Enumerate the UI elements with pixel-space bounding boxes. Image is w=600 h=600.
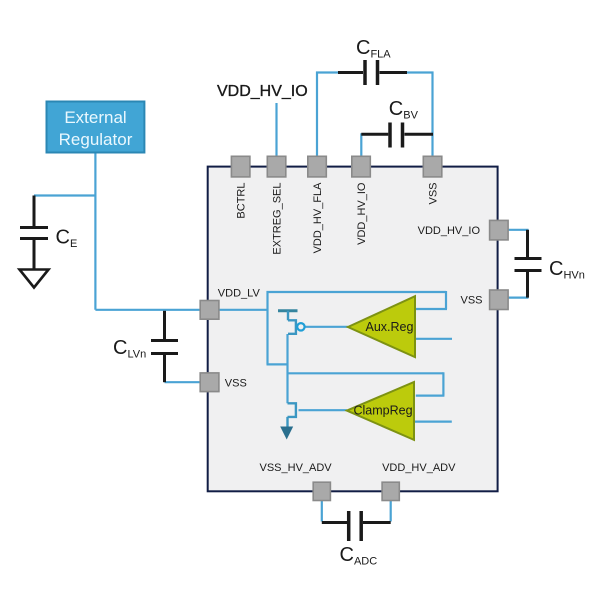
wire: CLVn bottom to left VSS pin	[165, 381, 201, 383]
wire: right VDD_HV_IO pin to CHVn	[508, 229, 529, 231]
pin VDD_HV_IO right	[490, 220, 509, 240]
svg-text:VSS: VSS	[225, 377, 247, 389]
wire: VDD_HV_ADV pin down	[390, 501, 392, 522]
transistor Q1 (PMOS)	[278, 311, 305, 334]
wire: feedback into Aux.Reg	[415, 308, 447, 310]
wire: External Regulator output down	[94, 153, 96, 310]
pin VSS_HV_ADV bottom	[313, 482, 330, 500]
svg-text:BCTRL: BCTRL	[236, 183, 248, 219]
svg-text:VDD_LV: VDD_LV	[218, 287, 261, 299]
pin VDD_HV_IO top	[352, 156, 371, 177]
wire: internal top feedback run	[267, 291, 447, 293]
wire: to VDD_LV pin	[95, 309, 200, 311]
wire: CFLA left horizontal	[316, 71, 340, 73]
chip U1 body	[208, 167, 498, 492]
wire: branch to ClampReg loop	[288, 372, 444, 374]
op-amp U1 Aux.Reg	[348, 296, 415, 357]
pin VSS right	[490, 290, 509, 310]
External Regulator block	[47, 102, 145, 153]
pin VDD_HV_ADV bottom	[382, 482, 399, 500]
ground	[20, 270, 49, 288]
wire: clamp loop into ClampReg	[416, 395, 445, 397]
pin VSS top	[423, 156, 442, 177]
wire: feedback right drop	[445, 291, 447, 309]
wire: jog to drain column	[267, 363, 288, 365]
capacitor CBV	[361, 123, 433, 148]
svg-text:VSS: VSS	[428, 183, 440, 205]
wire: EXTREG_SEL top	[275, 103, 277, 156]
capacitor CE	[20, 196, 48, 270]
pin VDD_HV_FLA	[308, 156, 327, 177]
wire: Aux.Reg output stub	[415, 338, 452, 340]
wire: CBV left vertical	[360, 133, 362, 156]
svg-text:EXTREG_SEL: EXTREG_SEL	[272, 183, 284, 255]
wire: CFLA right horizontal	[406, 71, 434, 73]
capacitor CADC	[322, 511, 391, 541]
svg-text:VDD_HV_IO: VDD_HV_IO	[418, 225, 481, 237]
wire: CFLA left vertical	[316, 72, 318, 157]
svg-text:VSS_HV_ADV: VSS_HV_ADV	[260, 462, 333, 474]
svg-text:External: External	[64, 108, 126, 127]
svg-text:Aux.Reg: Aux.Reg	[366, 320, 414, 334]
svg-text:VDD_HV_ADV: VDD_HV_ADV	[382, 462, 456, 474]
capacitor CFLA	[338, 60, 407, 85]
wire: ClampReg output stub	[414, 421, 452, 423]
wire: VSS_HV_ADV pin down	[321, 501, 323, 522]
pin BCTRL	[231, 156, 250, 177]
pin VDD_LV left	[200, 301, 219, 320]
wire: Q1 gate to Aux.Reg apex	[305, 326, 348, 328]
wire: CFLA/VSS right vertical	[431, 72, 433, 157]
wire: internal bypass vertical	[266, 291, 268, 364]
pin EXTREG_SEL	[267, 156, 286, 177]
current sink arrow	[280, 427, 293, 440]
transistor Q2 (NMOS)	[288, 403, 296, 427]
wire: Q2 gate to ClampReg apex	[299, 409, 347, 411]
svg-text:Regulator: Regulator	[59, 130, 133, 149]
wire: branch to CE	[34, 194, 95, 196]
wire: CHVn to right VSS pin	[508, 297, 529, 299]
pin VSS left	[200, 373, 219, 392]
svg-text:VSS: VSS	[461, 294, 483, 306]
wire: drain column Q1-Q2	[286, 334, 288, 403]
capacitor CHVn	[515, 230, 542, 298]
svg-text:VDD_HV_IO: VDD_HV_IO	[217, 83, 308, 100]
svg-text:VDD_HV_IO: VDD_HV_IO	[356, 182, 368, 245]
wire: clamp loop drop	[442, 372, 444, 395]
op-amp U2 ClampReg	[347, 382, 414, 440]
svg-text:ClampReg: ClampReg	[354, 403, 413, 417]
wire: VDD_LV pin to internal node	[219, 309, 268, 311]
svg-text:VDD_HV_FLA: VDD_HV_FLA	[312, 182, 324, 254]
capacitor CLVn	[151, 311, 178, 382]
